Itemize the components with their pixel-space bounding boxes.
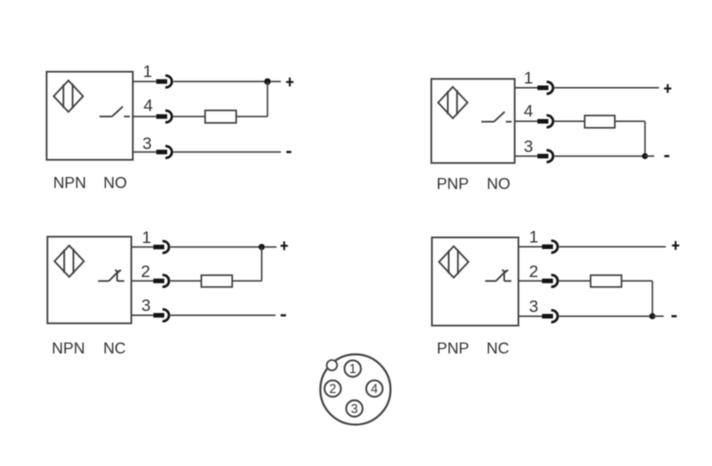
svg-text:PNP: PNP <box>437 341 469 358</box>
svg-text:NO: NO <box>487 176 511 193</box>
svg-text:NC: NC <box>487 341 510 358</box>
svg-text:1: 1 <box>142 228 151 247</box>
svg-text:2: 2 <box>529 262 538 281</box>
svg-text:4: 4 <box>144 96 153 115</box>
svg-text:3: 3 <box>529 297 538 316</box>
svg-text:1: 1 <box>349 362 356 376</box>
svg-text:NPN: NPN <box>52 341 85 358</box>
svg-text:NPN: NPN <box>53 175 86 192</box>
svg-text:3: 3 <box>524 137 533 156</box>
svg-text:3: 3 <box>142 134 151 153</box>
svg-text:4: 4 <box>524 102 533 121</box>
svg-text:3: 3 <box>141 296 150 315</box>
svg-text:4: 4 <box>371 382 378 396</box>
svg-text:1: 1 <box>524 69 533 88</box>
svg-text:1: 1 <box>529 228 538 247</box>
svg-text:1: 1 <box>143 62 152 81</box>
svg-text:PNP: PNP <box>437 176 469 193</box>
svg-text:2: 2 <box>329 382 336 396</box>
svg-text:2: 2 <box>141 262 150 281</box>
svg-text:NO: NO <box>103 175 127 192</box>
svg-text:3: 3 <box>351 402 358 416</box>
svg-text:NC: NC <box>103 341 126 358</box>
